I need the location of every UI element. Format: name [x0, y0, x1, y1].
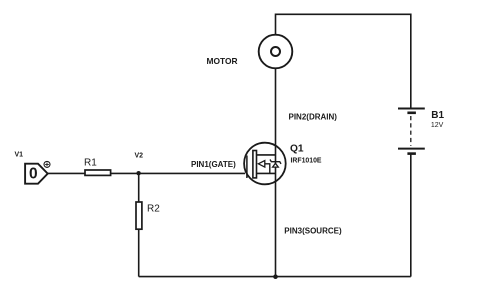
svg-text:IRF1010E: IRF1010E — [291, 157, 322, 164]
svg-text:PIN3(SOURCE): PIN3(SOURCE) — [284, 226, 342, 235]
svg-text:V1: V1 — [15, 152, 24, 159]
svg-text:0: 0 — [29, 166, 38, 183]
svg-text:PIN2(DRAIN): PIN2(DRAIN) — [289, 112, 338, 121]
wire bottom rail — [139, 276, 411, 278]
B1 dashed link — [410, 116, 412, 146]
Q1 drain lead (pin2) — [257, 154, 276, 156]
resistor R1 — [85, 170, 111, 175]
B1 negative plate top — [407, 112, 416, 115]
svg-text:R2: R2 — [147, 203, 160, 214]
node V2 junction dot — [136, 171, 140, 175]
Q1 channel plate — [253, 151, 257, 178]
resistor R2 — [136, 202, 142, 229]
wire: battery bottom lead down — [410, 154, 412, 277]
svg-text:MOTOR: MOTOR — [207, 56, 238, 66]
wire top: motor top to battery top — [276, 14, 411, 108]
Q1 body diode (zener style) — [270, 160, 281, 164]
B1 negative plate bottom — [407, 152, 416, 155]
wire: V1 to gate (horizontal) — [48, 172, 246, 174]
node junction dot bottom — [273, 274, 278, 279]
svg-text:B1: B1 — [431, 110, 444, 121]
svg-text:12V: 12V — [431, 122, 444, 129]
svg-text:PIN1(GATE): PIN1(GATE) — [191, 160, 236, 169]
B1 positive plate bottom — [398, 148, 425, 150]
Q1 source lead (pin3) — [257, 172, 276, 174]
Q1 body connection with arrow — [265, 164, 270, 174]
source V1 — [25, 161, 50, 183]
motor M1 — [259, 35, 293, 69]
svg-text:V2: V2 — [135, 153, 144, 160]
wire: V2 down through R2 to bottom rail — [138, 173, 140, 276]
Q1 body circle — [244, 143, 286, 185]
battery B1 — [398, 109, 425, 154]
transistor Q1 (MOSFET) — [244, 143, 286, 185]
svg-text:Q1: Q1 — [290, 144, 304, 155]
svg-text:R1: R1 — [84, 158, 97, 169]
B1 positive plate top — [398, 108, 425, 110]
wire: motor bottom through mosfet drain/source to bottom rail — [275, 68, 277, 277]
Q1 gate bar — [246, 156, 248, 179]
